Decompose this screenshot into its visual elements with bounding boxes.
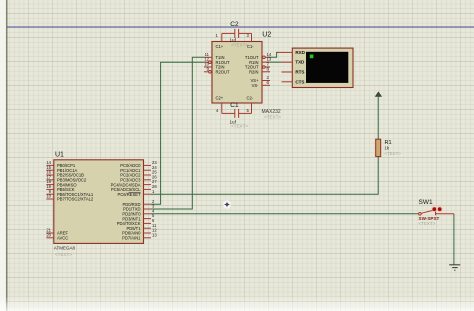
U1 right pin numbers PD xyxy=(152,199,157,238)
node origin marker (blue cross) xyxy=(223,201,231,209)
U1 left pin name labels PB xyxy=(57,163,94,202)
virtual terminal screen xyxy=(306,52,348,83)
U2 bottom pin numbers xyxy=(216,108,250,113)
svg-text:<TEXT>: <TEXT> xyxy=(231,124,248,129)
svg-text:<TEXT>: <TEXT> xyxy=(419,221,436,226)
svg-text:R2IN: R2IN xyxy=(249,70,258,75)
U2 bottom pin name labels xyxy=(216,96,254,101)
switch SW1 xyxy=(419,210,454,215)
svg-text:PB7/TOSC2/XTAL2: PB7/TOSC2/XTAL2 xyxy=(57,197,94,202)
resistor R1 xyxy=(376,139,381,156)
IC U2 MAX232 body xyxy=(212,42,262,104)
sheet left border line xyxy=(6,0,8,311)
svg-text:RTS: RTS xyxy=(295,70,304,75)
U1 right pin numbers PC xyxy=(152,160,157,194)
svg-text:C1: C1 xyxy=(230,102,239,109)
svg-text:20: 20 xyxy=(46,232,51,237)
U2 left pin numbers xyxy=(204,52,209,72)
wire U2 R1IN to terminal TXD xyxy=(270,61,282,63)
capacitor C2 xyxy=(222,29,252,38)
svg-text:TXD: TXD xyxy=(295,60,305,65)
wire U2 T1OUT to terminal RXD xyxy=(267,52,279,57)
U2 right pin numbers xyxy=(267,52,272,85)
U2 top pin name labels xyxy=(216,44,255,49)
svg-text:10: 10 xyxy=(46,194,51,199)
terminal pins RXD TXD RTS CTS xyxy=(278,52,293,81)
U1 right pins PC0..PC6 (23..28,1) xyxy=(144,165,152,194)
sheet top border line (blue) xyxy=(7,26,474,28)
wire VCC to R1 xyxy=(377,97,379,140)
U2 bottom pins C2+(4) C2-(5) xyxy=(222,103,252,113)
svg-text:VS-: VS- xyxy=(252,83,260,88)
U1 right pin name labels PC xyxy=(111,163,142,197)
IC U1 ATMEGA8 body xyxy=(54,160,144,244)
svg-text:<TEXT>: <TEXT> xyxy=(55,252,72,257)
U2 left pins T1IN(11) R1OUT(12) T2IN(10) R2OUT(9) xyxy=(204,57,212,73)
U1 left pin numbers PB xyxy=(46,160,51,199)
U1 AREF/AVCC name labels xyxy=(57,231,69,241)
svg-text:AVCC: AVCC xyxy=(57,236,68,241)
capacitor C1 xyxy=(222,109,252,118)
svg-text:PD7/AIN1: PD7/AIN1 xyxy=(122,236,141,241)
svg-text:<TEXT>: <TEXT> xyxy=(231,43,248,48)
svg-text:<TEXT>: <TEXT> xyxy=(385,151,402,156)
ground xyxy=(449,265,460,270)
bottom fade xyxy=(0,296,474,311)
svg-text:13: 13 xyxy=(152,232,157,237)
svg-text:U1: U1 xyxy=(55,152,64,159)
SW1 red toggle dots xyxy=(431,206,437,212)
svg-text:C2-: C2- xyxy=(247,96,254,101)
VCC power arrow xyxy=(376,92,382,96)
U1 right pin name labels PD xyxy=(117,202,141,241)
U1 AREF/AVCC pin numbers xyxy=(46,228,51,238)
svg-text:U2: U2 xyxy=(262,32,271,39)
svg-text:<TEXT>: <TEXT> xyxy=(264,115,281,120)
wire PD0/RXD to U2 R1OUT xyxy=(151,62,204,204)
wire PD1/TXD to U2 T1IN xyxy=(151,57,204,209)
U2 left pin name labels xyxy=(216,55,231,75)
svg-text:CTS: CTS xyxy=(295,79,304,84)
U2 top pins C1+(1) C1-(3) xyxy=(222,33,252,41)
virtual terminal body xyxy=(292,48,353,87)
svg-text:SW1: SW1 xyxy=(419,199,433,206)
U1 left pins PB0..PB7 (14,15,16,17,18,19,9,10) xyxy=(46,165,54,199)
wire SW1 to ground xyxy=(453,214,455,265)
sheet left margin strip xyxy=(0,0,6,311)
svg-text:C2+: C2+ xyxy=(216,96,224,101)
wire PD2/INT0 to SW1 xyxy=(151,213,418,215)
svg-text:RXD: RXD xyxy=(295,50,305,55)
U2 top pin numbers xyxy=(216,33,250,38)
U2 right pins T1OUT(14) R1IN(13) T2OUT(7) R2IN(8) VS+(2) VS-(6) xyxy=(262,56,270,85)
virtual terminal cursor xyxy=(310,55,314,59)
U1 right pins PD0..PD7 (2,3,4,5,6,11,12,13) xyxy=(144,204,152,238)
U2 right pin name labels xyxy=(245,55,259,88)
wire PC6/RESET to R1 (net RESET) xyxy=(151,157,378,195)
svg-text:ATMEGA8: ATMEGA8 xyxy=(54,246,76,251)
terminal pin name labels xyxy=(295,50,305,84)
svg-text:C1+: C1+ xyxy=(216,44,224,49)
svg-text:R2OUT: R2OUT xyxy=(216,70,231,75)
U1 left pins AREF(21) AVCC(20) xyxy=(46,233,54,238)
svg-text:C2: C2 xyxy=(230,21,239,28)
